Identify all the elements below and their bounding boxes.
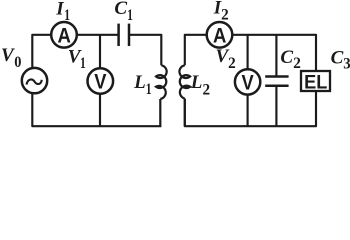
svg-text:2: 2 — [203, 81, 211, 98]
label C3 — [331, 48, 350, 73]
svg-text:3: 3 — [343, 56, 350, 73]
voltmeter V2 — [235, 69, 260, 94]
svg-text:EL: EL — [304, 71, 327, 93]
wire: C2 branch upper — [275, 35, 277, 76]
wire: C1 right plate to top-right corner, into L1 top stub — [130, 35, 161, 66]
EL box — [301, 71, 330, 91]
svg-text:1: 1 — [146, 81, 152, 98]
svg-text:C: C — [331, 48, 344, 69]
svg-text:I: I — [55, 0, 64, 19]
svg-text:L: L — [133, 72, 146, 93]
svg-text:C: C — [114, 0, 127, 19]
capacitor C2 — [265, 77, 288, 86]
voltmeter V1 — [88, 68, 114, 94]
wire: C2 branch lower — [275, 86, 277, 126]
svg-text:C: C — [280, 47, 293, 68]
svg-text:A: A — [213, 24, 226, 47]
svg-text:A: A — [58, 24, 71, 47]
ammeter A2 — [207, 22, 233, 48]
wire: L1 bottom stub — [159, 99, 161, 126]
label I1 — [55, 0, 70, 24]
label V1 — [68, 46, 86, 71]
svg-text:V: V — [94, 71, 106, 94]
label C2 — [280, 47, 301, 72]
label L2 — [190, 72, 211, 98]
label V0 — [1, 45, 22, 71]
wire: V2 branch — [247, 35, 249, 126]
inductor L1 — [156, 65, 167, 99]
wire: L2 bottom stub — [184, 99, 186, 127]
svg-text:V: V — [242, 72, 254, 95]
label V2 — [216, 46, 236, 72]
inductor L2 — [179, 65, 190, 98]
wire: V1 branch — [99, 35, 101, 126]
label C1 — [114, 0, 133, 24]
wire: right loop bottom (corners) — [185, 91, 316, 126]
svg-text:1: 1 — [64, 7, 70, 24]
svg-text:L: L — [190, 72, 203, 93]
capacitor C1 — [119, 24, 129, 46]
label L1 — [133, 72, 151, 98]
sine symbol — [27, 79, 42, 84]
svg-text:V: V — [1, 45, 15, 66]
wire: left loop (top-left and bottom-left corners) — [32, 35, 161, 126]
source V0 — [22, 68, 47, 93]
svg-text:1: 1 — [80, 55, 86, 72]
svg-text:2: 2 — [228, 55, 236, 72]
svg-text:0: 0 — [14, 54, 21, 71]
wire: right loop top (L2 top stub, top corners) — [185, 35, 316, 71]
svg-text:2: 2 — [221, 6, 229, 23]
label I2 — [213, 0, 229, 23]
svg-text:2: 2 — [293, 55, 301, 72]
ammeter A1 — [51, 22, 77, 48]
svg-text:1: 1 — [127, 7, 133, 24]
